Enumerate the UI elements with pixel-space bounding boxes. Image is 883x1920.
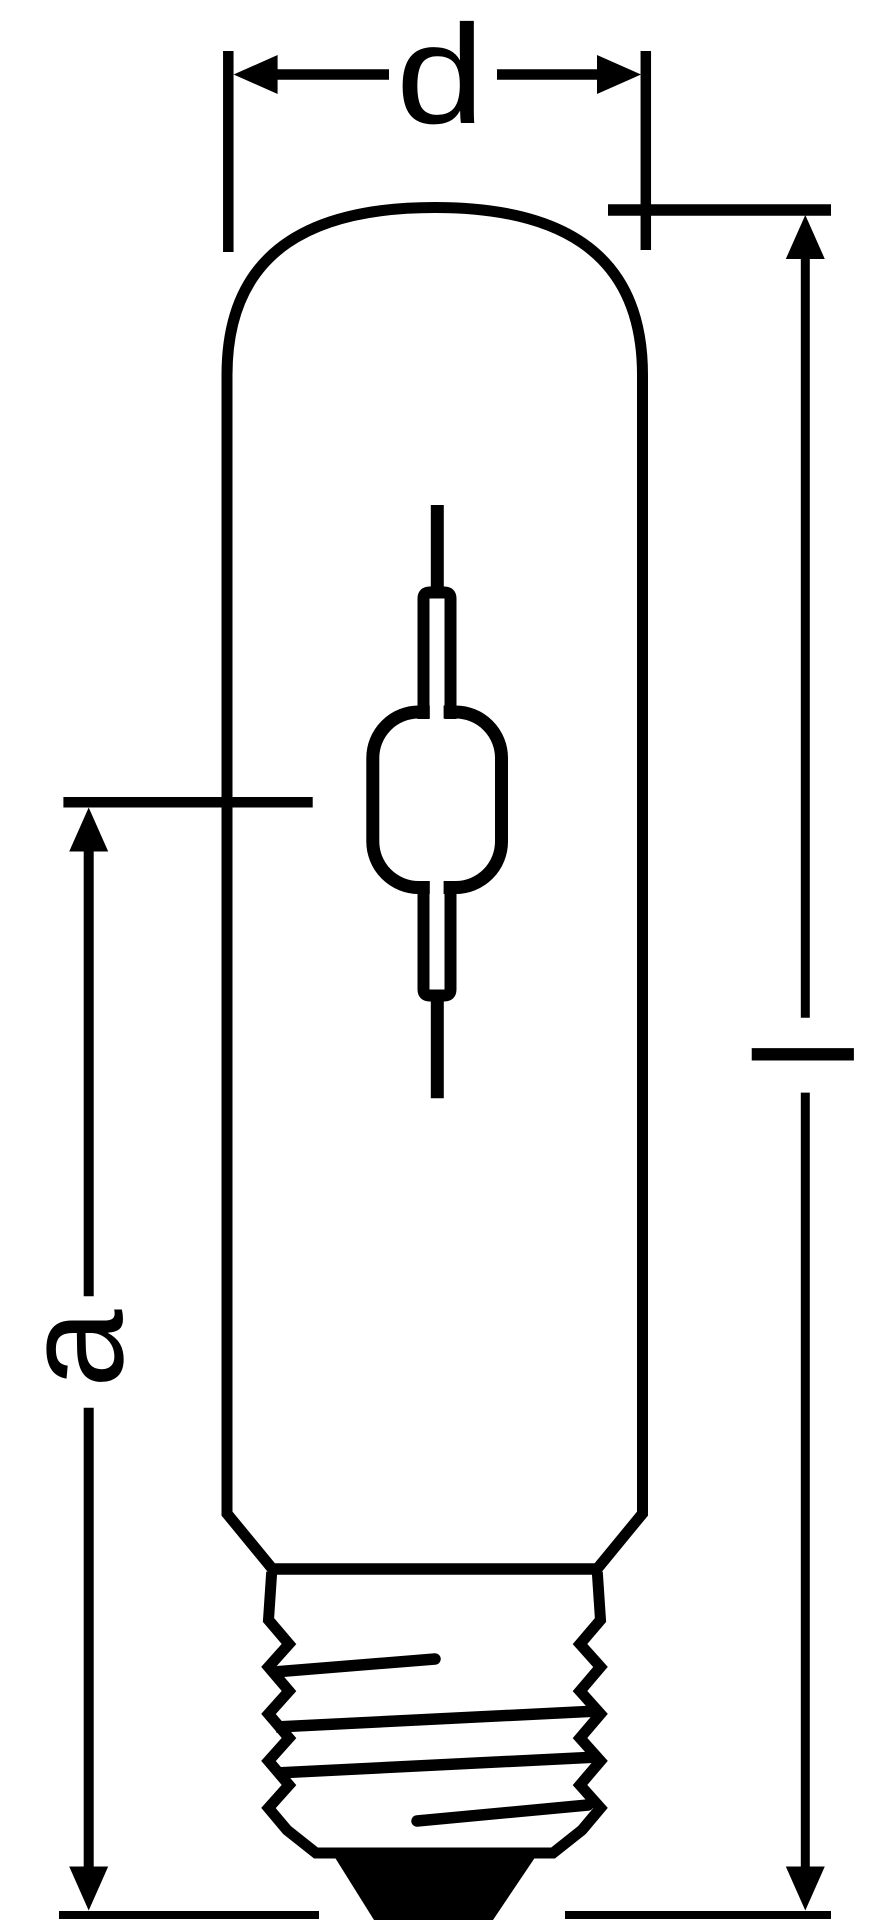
l dimension line lower segment (801, 1093, 810, 1870)
white channel through capsule (top) (430, 600, 444, 719)
thread line 2 (full) (276, 1711, 598, 1727)
d extension line left (223, 51, 234, 252)
ground baseline right segment (565, 1911, 831, 1919)
l arrowhead top (786, 215, 825, 259)
svg-text:a: a (0, 1309, 152, 1388)
d dimension line left segment (270, 69, 389, 80)
base contact (filled trapezoid) (334, 1856, 536, 1920)
a arrowhead top (69, 808, 108, 852)
white channel through capsule (bottom) (430, 881, 444, 1000)
l top tick line (608, 204, 831, 216)
d arrowhead right (597, 55, 641, 94)
svg-text:d: d (396, 0, 485, 153)
top lead wire (431, 505, 444, 593)
svg-text:l: l (726, 1039, 883, 1070)
a dimension line upper segment (84, 847, 94, 1296)
thread line 3 (full) (276, 1757, 598, 1773)
a arrowhead bottom (69, 1867, 108, 1911)
bulb tube outline (227, 208, 643, 1570)
l arrowhead bottom (786, 1867, 825, 1911)
thread line 1 (short, upper) (274, 1659, 435, 1672)
a left tick line (63, 797, 312, 808)
bottom lead wire (431, 993, 444, 1098)
d arrowhead left (234, 55, 278, 94)
lower pinch seal (424, 881, 451, 996)
thread line 4 (short, lower) (417, 1805, 588, 1821)
a dimension line lower segment (84, 1408, 94, 1870)
upper pinch seal (424, 593, 451, 720)
d dimension line right segment (497, 69, 605, 80)
l dimension line upper segment (801, 255, 810, 1018)
base top line (269, 1563, 601, 1575)
ground baseline left segment (59, 1911, 319, 1919)
screw base shell outline (269, 1572, 601, 1853)
arc tube capsule (373, 712, 502, 888)
d extension line right (641, 51, 652, 250)
